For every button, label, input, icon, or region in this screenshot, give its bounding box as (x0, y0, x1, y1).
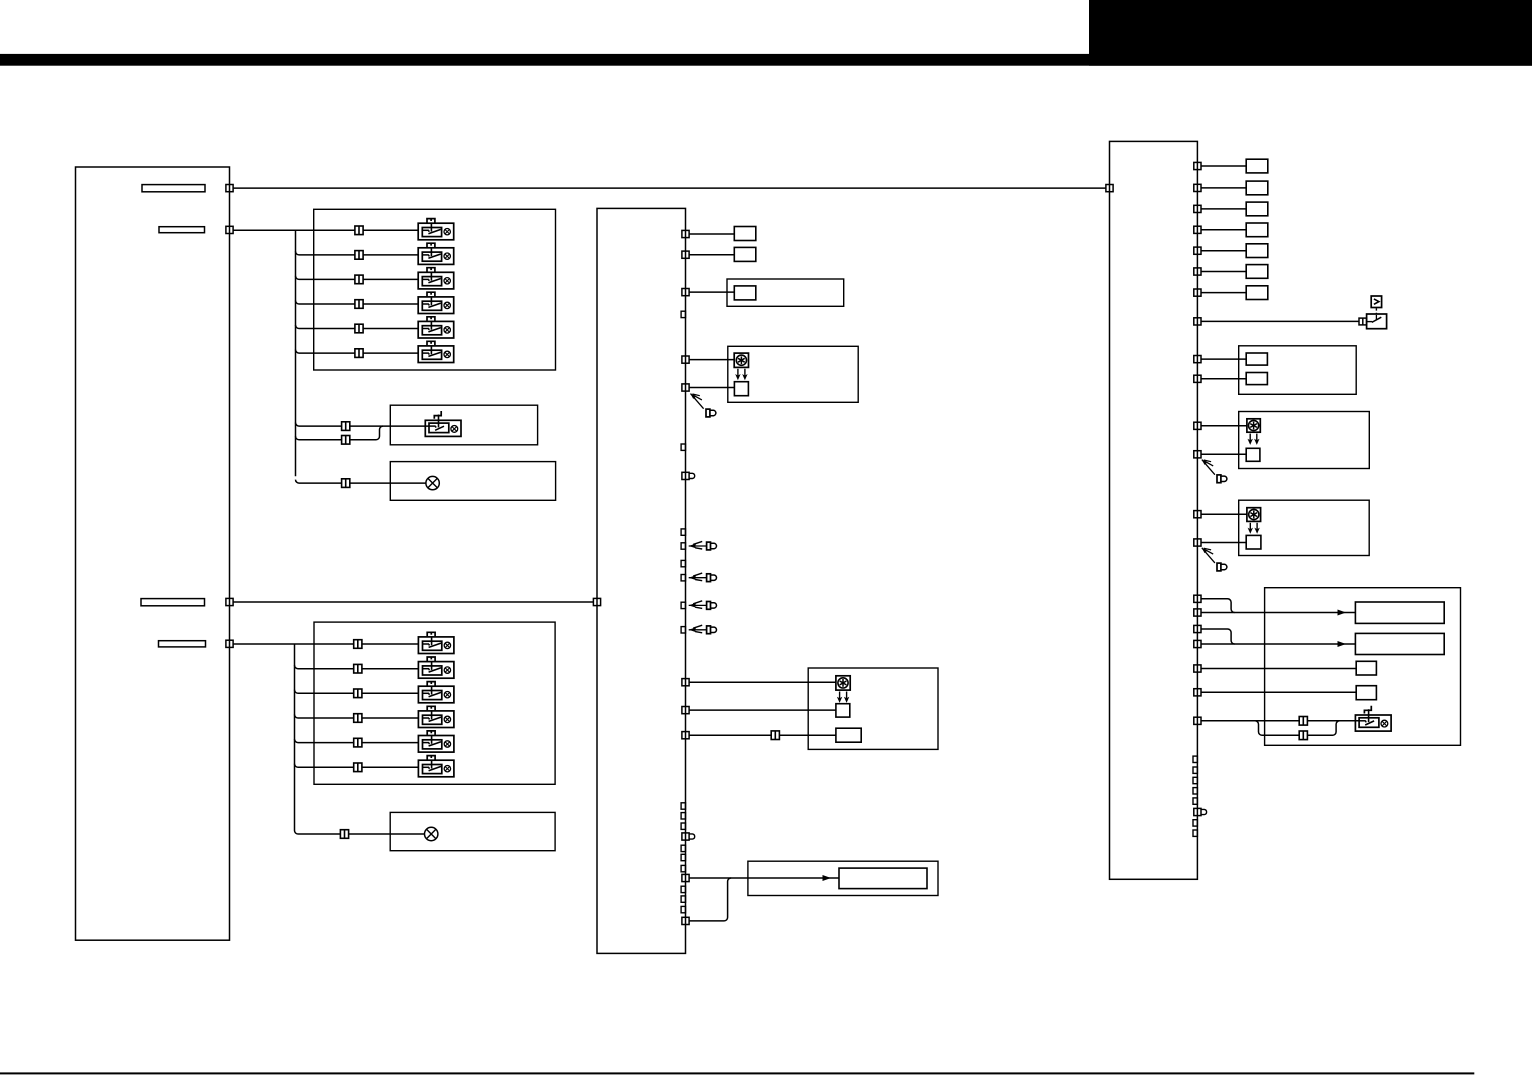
C2 terminal R11 + wire (1194, 422, 1247, 429)
C1 terminal A15 + wire (682, 679, 836, 686)
C1 spare terminal A11 (681, 560, 685, 566)
C2 terminal R5 + wire (1194, 247, 1246, 254)
C1 probe terminal A12 with plug pointer (681, 573, 716, 582)
connector J9 (354, 640, 362, 649)
wire branch to switch SW11 (295, 715, 419, 719)
C2 spare terminal S1 (1193, 756, 1197, 762)
C1 spare terminal B1 (681, 803, 685, 809)
lamp box L1 (390, 462, 555, 501)
switch SW14 (step actuated, illuminated) (1355, 706, 1391, 731)
C2 terminal R17 + wire (joins R18) (1194, 625, 1235, 644)
connector J18 (1299, 731, 1307, 740)
test plug P3 with pointer to terminal R14 (1202, 548, 1227, 571)
C2 terminal R20 + wire (1194, 689, 1356, 696)
motor MTR4 (1247, 508, 1261, 522)
C1 spare terminal B9 (681, 906, 685, 912)
C2 terminal R13 + wire (1194, 511, 1247, 518)
C2 terminal R7 + wire (1194, 289, 1246, 296)
actuator box M7b (1246, 535, 1261, 549)
C1 terminal (left edge) (593, 598, 600, 605)
C2 terminal R18 + signal wire (1194, 640, 1356, 647)
C2 terminal R16 + signal wire (1194, 609, 1356, 616)
C1 spare terminal A4 (681, 311, 685, 317)
relay box K2 (1246, 181, 1268, 195)
C1 terminal A17 + wire (682, 732, 836, 739)
switch SW13 (illuminated) (418, 756, 454, 777)
M5 element box 1 (1246, 353, 1267, 365)
MTR1 drive arrows (735, 369, 747, 380)
C2 terminal R15 + wire (joins R16) (1194, 595, 1235, 612)
switch group box G1 (314, 209, 556, 370)
wire branch to SW7 (feed) (296, 423, 430, 427)
sensor box (greater-than) (1371, 296, 1381, 308)
U1 fuse bar F4 (159, 641, 206, 647)
M8 element box B (1356, 686, 1376, 700)
wire branch to SW7 (return) (296, 426, 384, 440)
U1 fuse bar F2 (159, 227, 205, 233)
C1 probe terminal A14 with plug pointer (681, 625, 716, 634)
U1 fuse bar F1 (142, 185, 205, 192)
relay box K1 (1246, 159, 1268, 173)
wire branch to switch SW12 (295, 739, 419, 743)
M8 element box A (1356, 661, 1376, 675)
MTR3 drive arrows (1248, 434, 1260, 445)
connector J5 (355, 324, 363, 333)
C2 terminal R6 + wire (1194, 268, 1246, 275)
relay box K3 (1246, 202, 1268, 216)
U1 terminal pin 1 (226, 185, 233, 192)
thermo switch TS1 connector (1359, 318, 1367, 325)
feed bus vertical (lower) (294, 644, 296, 831)
M8 display window 2 (1355, 633, 1444, 654)
connector J7a (342, 422, 350, 431)
U1 fuse bar F3 (141, 599, 205, 606)
test plug P2 with pointer to terminal R12 (1202, 460, 1227, 483)
relay box K6 (1246, 265, 1268, 279)
C2 terminal R21 + wire to switch SW14 (1194, 717, 1359, 724)
C1 terminal A1 + wire (682, 230, 734, 237)
C1 spare terminal B7 (681, 886, 685, 892)
MTR4 drive arrows (1248, 523, 1260, 534)
C1 spare terminal B3 (681, 823, 685, 829)
test plug P1 with pointer to terminal A6 (691, 394, 716, 417)
lamp box L2 (390, 812, 555, 850)
C1 spare terminal A9 (681, 529, 685, 535)
lamp L1 (426, 476, 439, 489)
C1 probe terminal A13 with plug pointer (681, 601, 716, 610)
wire U1 pin3 to connector column C1 (233, 601, 593, 603)
connector J6 (355, 349, 363, 358)
wire branch to switch SW4 (296, 301, 419, 305)
connector J14 (354, 763, 362, 772)
control unit box M1 (727, 279, 844, 306)
connector J7b (342, 436, 350, 445)
connector J12 (354, 714, 362, 723)
connector J8 (342, 479, 350, 488)
switch group box G2 (314, 622, 555, 784)
connector J3 (355, 275, 363, 284)
C1 terminal A3 + wire (682, 289, 734, 296)
switch SW9 (illuminated) (418, 657, 454, 678)
blower unit box M3 (808, 668, 938, 749)
instrument box M4 (748, 861, 938, 895)
C2 spare terminal S2 (1193, 767, 1197, 773)
diode box D1 (734, 227, 756, 241)
feed bus vertical (upper) (295, 230, 297, 476)
motor unit box M6 (1239, 412, 1370, 469)
switch SW3 (illuminated) (418, 268, 454, 289)
actuator box M6b (1246, 448, 1260, 461)
motor MTR2 (836, 676, 850, 690)
switch SW7 (step actuated) (425, 411, 461, 436)
relay box K7 (1246, 286, 1268, 300)
switch SW11 (illuminated) (418, 706, 454, 727)
C1 spare terminal B8 (681, 896, 685, 902)
C1 spare terminal B4 (681, 845, 685, 851)
C2 terminal R2 + wire (1194, 184, 1246, 191)
C1 spare terminal A7 (681, 444, 685, 450)
C1 spare terminal B2 (681, 813, 685, 819)
connector J11 (354, 689, 362, 698)
resistor box M3c (836, 728, 861, 742)
switch SW8 (illuminated) (418, 632, 454, 653)
C2 terminal R10 + wire (1194, 375, 1246, 382)
C1 terminal B10 with plug (682, 833, 695, 840)
wire branch to switch SW3 (296, 276, 419, 280)
M1 input box (734, 286, 756, 300)
connector column C2 (1110, 141, 1198, 879)
wire branch to switch SW5 (296, 325, 419, 329)
M5 element box 2 (1246, 373, 1267, 385)
connector J2 (355, 251, 363, 260)
wire branch to switch SW6 (296, 350, 419, 354)
C1 terminal A8 with plug (682, 472, 695, 479)
motor MTR3 (1247, 419, 1260, 432)
wire U1 pin4 to switch SW8 (233, 643, 418, 645)
sensor unit box M5 (1239, 346, 1357, 395)
switch SW10 (illuminated) (418, 682, 454, 703)
M8 display window 1 (1355, 602, 1444, 623)
C2 terminal (left edge) (1106, 185, 1113, 192)
wire branch to switch SW9 (295, 665, 419, 669)
lamp L2 (425, 827, 438, 840)
C1 terminal B11 + signal wire (682, 874, 839, 881)
C2 spare terminal S3 (1193, 777, 1197, 783)
C2 spare terminal S4 (1193, 788, 1197, 794)
motor MTR1 (734, 353, 748, 367)
connector J13 (354, 738, 362, 747)
C1 terminal A16 + wire (682, 707, 836, 714)
C2 spare terminal S7 (1193, 830, 1197, 836)
SW14 return wire branch (1255, 721, 1340, 736)
C1 spare terminal B5 (681, 854, 685, 860)
motor unit box M2 (728, 346, 858, 402)
motor unit box M7 (1239, 500, 1370, 555)
C2 terminal R19 + wire (1194, 665, 1356, 672)
C2 terminal R12 + wire (1194, 451, 1246, 458)
C1 terminal A6 + wire (682, 384, 735, 391)
C2 terminal R3 + wire (1194, 205, 1246, 212)
connector J4 (355, 300, 363, 309)
switch SW4 (illuminated) (418, 292, 454, 313)
relay box K5 (1246, 244, 1268, 258)
switch SW1 (illuminated) (418, 219, 454, 240)
C1 spare terminal B6 (681, 865, 685, 871)
TS1 sensing dashed link (1375, 308, 1377, 314)
U1 terminal pin 2 (226, 226, 233, 233)
C2 terminal R1 + wire (1194, 162, 1246, 169)
thermo switch TS1 (1367, 314, 1387, 329)
C1 probe terminal A10 with plug pointer (681, 541, 716, 549)
connector J16 (771, 731, 779, 740)
header title block (1089, 0, 1532, 66)
wire branch to switch SW2 (296, 251, 419, 255)
wire U1 pin1 to connector column C2 (233, 187, 1106, 189)
C2 spare terminal S5 (1193, 798, 1197, 804)
switch SW6 (illuminated) (418, 341, 454, 362)
relay box K4 (1246, 223, 1268, 237)
C2 terminal R4 + wire (1194, 226, 1246, 233)
connector J15 (340, 830, 348, 839)
wire branch to lamp L1 (296, 480, 426, 484)
wire branch to switch SW13 (295, 764, 419, 768)
switch SW7 box (390, 405, 537, 445)
C1 terminal A5 + wire (682, 356, 734, 363)
control module box M8 (1265, 588, 1461, 746)
MTR2 drive arrows (837, 692, 849, 703)
M4 display window (839, 868, 927, 889)
U1 terminal pin 4 (226, 640, 233, 647)
switch SW12 (illuminated) (418, 731, 454, 752)
switch SW2 (illuminated) (418, 243, 454, 264)
diode box D2 (734, 247, 756, 261)
wire branch to switch SW10 (295, 690, 419, 694)
C1 terminal B12 + return wire (682, 878, 731, 925)
U1 terminal pin 3 (226, 598, 233, 605)
C2 terminal R8 + wire to thermo switch (1194, 318, 1359, 325)
C2 terminal R14 + wire (1194, 539, 1246, 546)
fuse/junction module U1 (76, 167, 230, 940)
connector J17 (1299, 717, 1307, 726)
connector J10 (354, 664, 362, 673)
actuator box M3b (836, 704, 850, 717)
C2 terminal R9 + wire (1194, 356, 1246, 363)
switch SW5 (illuminated) (418, 317, 454, 338)
actuator box M2b (734, 382, 748, 396)
connector J1 (355, 226, 363, 235)
wire U1 pin2 to switch SW1 (233, 229, 418, 231)
C1 terminal A2 + wire (682, 251, 734, 258)
wire branch to lamp L2 (295, 831, 425, 835)
C2 terminal S8 with plug (1194, 808, 1207, 815)
C2 spare terminal S6 (1193, 820, 1197, 826)
header rule bar (0, 54, 1532, 66)
connector column C1 (597, 208, 686, 953)
footer rule (0, 1072, 1474, 1074)
